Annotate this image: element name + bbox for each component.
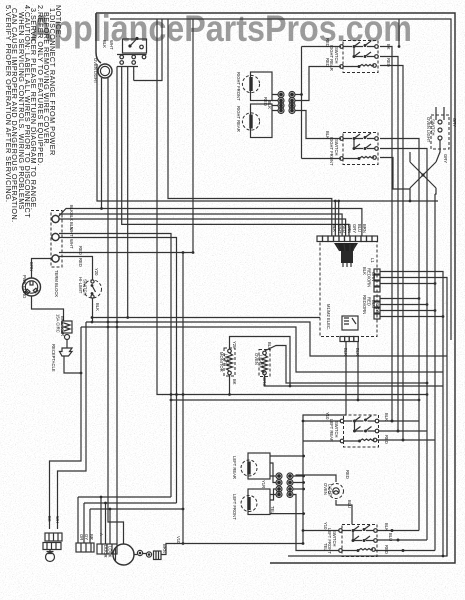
rail drops center <box>101 497 110 544</box>
wire clock fan lower 2 <box>380 304 427 306</box>
wire clock fan upper 3 <box>380 283 435 285</box>
svg-text:RIGHT REAR: RIGHT REAR <box>236 106 241 132</box>
clock terminal strip <box>317 236 378 242</box>
right front element box <box>251 72 273 101</box>
svg-text:RED: RED <box>342 224 347 233</box>
svg-text:BLU: BLU <box>357 224 362 232</box>
right rear element box <box>251 104 273 138</box>
wire receptacle down <box>64 356 81 373</box>
svg-text:WHT: WHT <box>337 224 342 234</box>
svg-text:GY: GY <box>84 534 89 540</box>
clock bottom terminal strip <box>340 337 358 342</box>
wire RR switch right 2 down bundle <box>380 57 398 432</box>
wire RF switch right 1 down <box>380 139 419 531</box>
wire rail 324.5 with corner <box>86 322 447 356</box>
svg-text:RED: RED <box>78 246 83 255</box>
wires box to pins <box>270 463 276 500</box>
svg-text:BRN: BRN <box>362 224 367 233</box>
svg-text:DOOR: DOOR <box>103 545 108 558</box>
left front element box <box>248 489 270 515</box>
rail drops left <box>78 497 90 543</box>
wire lamp3 top RED <box>296 475 337 482</box>
svg-text:BLK: BLK <box>95 303 100 311</box>
wire X crossing <box>410 152 436 194</box>
terminal dashed box <box>51 211 62 268</box>
wire RF switch left top from pins <box>295 111 341 139</box>
wire sensor2 bottom <box>265 375 444 386</box>
svg-text:L1: L1 <box>370 258 375 263</box>
svg-text:BK: BK <box>47 516 52 522</box>
svg-text:ORN: ORN <box>371 272 376 281</box>
clock motor blob <box>334 243 358 251</box>
svg-text:SWITCH: SWITCH <box>334 139 339 156</box>
wire LR switch left bottom <box>303 440 341 442</box>
wire x out down <box>409 188 411 201</box>
svg-text:Y10: Y10 <box>323 522 328 530</box>
svg-text:BRN: BRN <box>162 544 167 553</box>
wire plug to terminal <box>32 259 53 279</box>
svg-text:TEL: TEL <box>270 506 275 514</box>
svg-text:LEFT FRONT: LEFT FRONT <box>232 494 237 520</box>
svg-text:BLU: BLU <box>267 342 272 350</box>
terminal block circles <box>52 215 59 222</box>
svg-text:A: A <box>99 533 104 536</box>
right rear infinite switch <box>340 41 379 73</box>
svg-text:BLK: BLK <box>267 101 272 109</box>
svg-text:BLU: BLU <box>388 533 393 541</box>
wire RF switch right 2 down <box>380 149 427 541</box>
wire sensor1 top <box>230 337 291 387</box>
rails to door lock <box>78 496 171 498</box>
svg-text:GRY: GRY <box>375 303 380 312</box>
connector A <box>45 533 62 541</box>
motor switch pair <box>137 550 142 555</box>
wire LF switch left bottom <box>294 495 340 551</box>
svg-text:RED: RED <box>384 545 389 554</box>
wire BLK pair from terminal 1 <box>59 214 342 236</box>
wire RR switch left top from pins <box>302 47 342 159</box>
svg-text:RED: RED <box>384 435 389 444</box>
svg-text:PWR CORD: PWR CORD <box>22 275 27 298</box>
wire LR switch right 2 <box>379 430 428 432</box>
element terminal pins column 2 <box>290 93 294 113</box>
wire RED 2 to breaker <box>59 257 93 281</box>
svg-text:LOCK: LOCK <box>108 546 113 558</box>
wire clock fan upper 1 <box>380 272 443 557</box>
svg-text:RED: RED <box>345 470 350 479</box>
svg-text:OVEN LIGHT: OVEN LIGHT <box>426 117 431 143</box>
receptacle <box>60 340 73 357</box>
wire clock bottom drop 1 <box>303 342 346 544</box>
svg-text:Y1R: Y1R <box>261 480 266 488</box>
svg-text:WHT: WHT <box>69 227 74 237</box>
wire RR switch right 1 down bundle <box>380 47 392 422</box>
left element pins column 1 <box>277 474 281 496</box>
wire top outer border <box>96 13 455 563</box>
svg-text:RECEPTACLE: RECEPTACLE <box>51 344 56 372</box>
wire door lead to mid rail <box>127 67 129 318</box>
left rear infinite switch <box>340 415 379 447</box>
wire RF switch left bottom U <box>302 158 342 160</box>
right front element <box>242 75 259 92</box>
svg-text:GRY: GRY <box>352 224 357 233</box>
svg-text:BLK: BLK <box>69 205 74 213</box>
wire clock fan lower 4 <box>380 316 443 318</box>
element terminal pins column 1 <box>279 93 283 113</box>
wire light switch bottom to X <box>436 140 440 162</box>
power cord plug <box>23 278 41 296</box>
svg-text:WH: WH <box>55 516 60 523</box>
wire left border down from top corner into oven light <box>96 13 101 63</box>
svg-text:5.VERIFY PROPER OPERATION AFTE: 5.VERIFY PROPER OPERATION AFTER SERVICIN… <box>4 5 13 203</box>
svg-text:RED/ORN: RED/ORN <box>362 295 367 314</box>
svg-text:OVEN: OVEN <box>254 353 259 365</box>
svg-text:SWITCH: SWITCH <box>83 279 88 296</box>
svg-text:BLK: BLK <box>69 213 74 221</box>
svg-text:BK: BK <box>232 379 237 385</box>
motor connector <box>154 551 162 560</box>
wire plug bottom <box>32 296 64 321</box>
wire RR switch left bottom <box>295 67 341 101</box>
svg-text:RED/ORN: RED/ORN <box>367 268 372 287</box>
hi-limit switch <box>84 280 102 298</box>
wire element1 to pins <box>272 95 278 101</box>
wire LR switch right 1 <box>379 420 420 422</box>
svg-text:LIGHT: LIGHT <box>224 354 229 367</box>
wire door lead to rail <box>122 67 349 237</box>
svg-text:15A CIRC: 15A CIRC <box>56 314 61 333</box>
svg-text:BREAKER: BREAKER <box>60 316 65 336</box>
svg-text:OVEN: OVEN <box>323 483 328 495</box>
svg-text:RIGHT FRONT: RIGHT FRONT <box>236 72 241 101</box>
left front infinite switch <box>339 525 378 557</box>
wire lamp bottom <box>92 298 94 322</box>
wire LF switch right 2 <box>377 539 427 541</box>
wire left rear top to bus <box>270 455 304 457</box>
wire clock fan lower 3 <box>380 310 435 312</box>
left front element <box>241 496 257 512</box>
svg-text:BLK: BLK <box>332 224 337 232</box>
wire rail y199 <box>97 64 438 201</box>
svg-text:BLK: BLK <box>102 40 107 48</box>
left rear element <box>241 460 257 476</box>
wire LF switch right 1 <box>377 530 419 532</box>
wire center vertical 168 to clock rail <box>168 19 332 236</box>
svg-text:BLK: BLK <box>384 523 389 531</box>
clock right pins lower <box>374 296 380 319</box>
oven sensor resistor 1 dashed <box>224 348 235 376</box>
wire top inner border <box>110 19 451 340</box>
wire vertical 435 down <box>434 194 436 551</box>
wire sensor2 top <box>265 346 428 384</box>
svg-text:GRY: GRY <box>452 118 457 127</box>
svg-text:SWITCH: SWITCH <box>334 421 339 438</box>
circuit breaker <box>62 321 72 333</box>
svg-text:BR: BR <box>89 534 94 540</box>
svg-text:RED: RED <box>78 258 83 267</box>
door lock motor <box>113 544 134 565</box>
svg-text:ORN: ORN <box>347 224 352 233</box>
wire RED from terminal 3 <box>59 252 193 254</box>
svg-text:M1/M2 ELEC.: M1/M2 ELEC. <box>326 304 331 330</box>
svg-text:LEFT REAR: LEFT REAR <box>232 456 237 479</box>
oven light DP1 <box>98 64 112 78</box>
clock right pins upper <box>374 269 380 292</box>
svg-text:BLK: BLK <box>325 131 330 139</box>
oven sensor resistor 2 dashed <box>259 350 270 377</box>
wire motor out V10 <box>161 544 303 555</box>
wire pair below oven light <box>59 209 362 237</box>
svg-text:RED: RED <box>325 58 330 67</box>
svg-text:LIGHT: LIGHT <box>259 355 264 368</box>
connector B <box>43 543 61 550</box>
svg-text:HI-LIMIT: HI-LIMIT <box>78 277 83 294</box>
wire LF switch right 3 <box>376 550 436 552</box>
wire center vertical 162 to bottom bus <box>134 19 162 81</box>
wire sensor1 bottom <box>229 375 231 395</box>
svg-text:Y2L: Y2L <box>232 341 237 349</box>
svg-text:TERM BLOCK: TERM BLOCK <box>54 270 59 297</box>
wire center vertical 193 <box>192 19 194 253</box>
svg-text:WHT: WHT <box>69 239 74 249</box>
svg-text:V10: V10 <box>176 536 181 544</box>
wire long from oven light to door lock area <box>108 78 124 544</box>
wire left front bottom to bus <box>270 513 304 515</box>
svg-text:RED: RED <box>367 297 372 306</box>
svg-text:LEFT REAR: LEFT REAR <box>329 419 334 442</box>
bulb symbol <box>46 553 55 562</box>
wire bottom long <box>288 460 447 556</box>
door switch body box <box>123 39 147 53</box>
wire center vertical 157 to bottom bus <box>157 19 427 395</box>
wire door lead right <box>133 67 135 81</box>
left rear element box <box>248 453 270 479</box>
wire RF switch right 3 down <box>380 158 410 190</box>
svg-text:RED: RED <box>325 38 330 47</box>
clock dashed box <box>320 242 377 337</box>
svg-text:GRY: GRY <box>443 154 448 163</box>
svg-text:RIGHT FRONT: RIGHT FRONT <box>329 137 334 166</box>
svg-text:BLU: BLU <box>347 500 352 508</box>
svg-text:OR: OR <box>79 534 84 540</box>
wire lamp3 bottom BLU <box>336 500 352 525</box>
svg-text:SWITCH: SWITCH <box>332 530 337 547</box>
svg-text:Y20: Y20 <box>94 268 99 276</box>
right front infinite switch <box>340 133 379 165</box>
svg-text:Y10: Y10 <box>325 412 330 420</box>
wire rail 321 <box>92 317 320 319</box>
oven light switch dashed box <box>431 115 449 149</box>
third oven light lamp <box>329 484 344 499</box>
wire element2 to pins <box>272 106 278 111</box>
left element pins column 2 <box>288 474 292 496</box>
svg-text:BLK: BLK <box>362 267 367 275</box>
svg-text:MONITOR: MONITOR <box>219 352 224 372</box>
wires pins col2 to bus 303 <box>294 476 304 489</box>
svg-text:SWITCH: SWITCH <box>334 47 339 64</box>
wire left pair stairstep down to connector A <box>50 327 82 529</box>
wire door lead long <box>116 67 118 545</box>
wire RR switch right 3 down bundle <box>380 66 403 441</box>
svg-text:TEL: TEL <box>323 543 328 551</box>
wire clock fan lower 1 <box>380 298 419 300</box>
clock bottom component <box>342 316 358 330</box>
wire light switch top GRY <box>436 107 444 120</box>
door switch contact <box>135 37 138 40</box>
wire clock bottom drop 2 <box>357 342 359 401</box>
svg-text:LIGHT: LIGHT <box>328 484 333 497</box>
connector D <box>97 544 117 554</box>
svg-text:BLK: BLK <box>355 348 360 356</box>
wire top border feed to bundle <box>398 19 400 47</box>
door connector row <box>117 55 147 67</box>
svg-text:BLK: BLK <box>384 413 389 421</box>
wire LR switch right 3 <box>377 439 435 441</box>
wire LR switch left top <box>303 420 341 422</box>
right rear element <box>242 113 259 130</box>
svg-text:BLK: BLK <box>343 348 348 356</box>
wire rail 327.5 with corner <box>81 327 443 372</box>
svg-text:SWITCH: SWITCH <box>431 119 436 136</box>
dots clock fan <box>418 297 421 300</box>
wire clock fan upper 2 <box>380 278 447 557</box>
wire LF switch left top <box>303 530 340 532</box>
connector C <box>76 543 94 552</box>
breaker terminal <box>65 335 70 340</box>
svg-text:WHT: WHT <box>109 40 114 50</box>
wire WHT pair from terminal 2 <box>59 234 171 498</box>
